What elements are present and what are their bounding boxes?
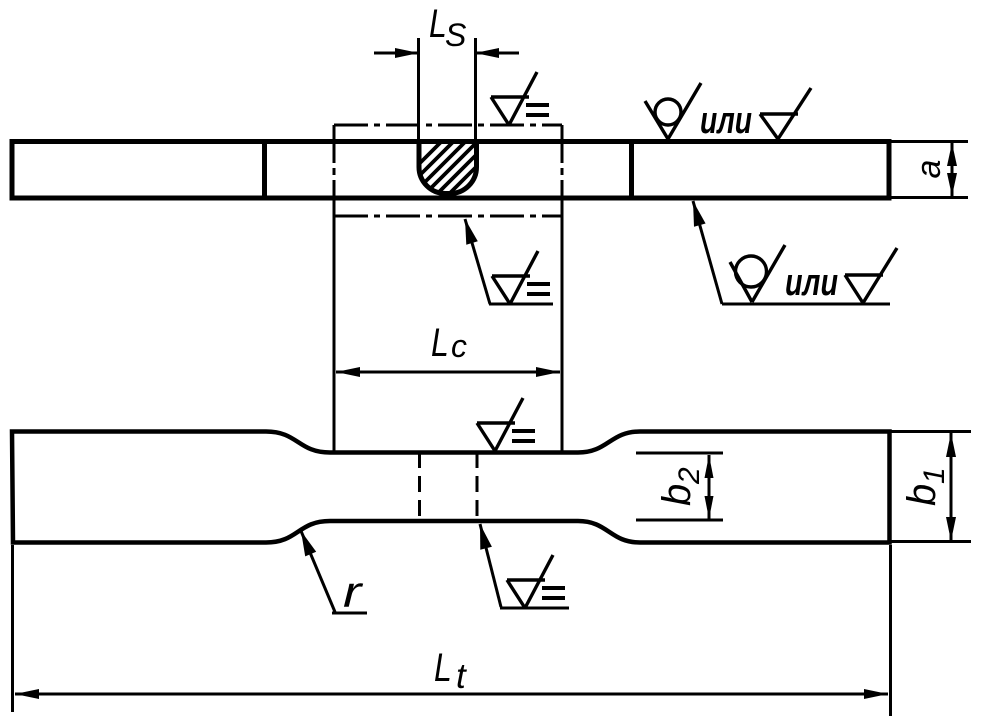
dimension b2 arrow bbox=[705, 455, 714, 519]
leader arrow r to fillet bbox=[301, 531, 367, 613]
dimension L_S extension line left bbox=[417, 38, 420, 142]
label b1 (rotated) bbox=[900, 467, 951, 506]
weld seam (hatched) bbox=[378, 135, 532, 205]
leader arrow to chain line with roughness symbol S4 bbox=[465, 219, 553, 304]
svg-text:b: b bbox=[900, 484, 944, 506]
svg-text:S: S bbox=[445, 17, 466, 53]
dimension L_c line with arrows bbox=[336, 367, 560, 377]
roughness triangle symbol (bottom right) bbox=[845, 248, 897, 303]
thickness a: extension lines bbox=[888, 140, 968, 143]
weld location dashed line right (plan view) bbox=[476, 452, 479, 521]
roughness symbol S5 (triangle with = above specimen) bbox=[477, 398, 535, 451]
chain line box: lower horizontal bbox=[334, 215, 562, 218]
roughness symbol S6 (triangle with =) bbox=[507, 555, 565, 608]
svg-text:a: a bbox=[910, 160, 948, 179]
lower specimen (plan view) outline bbox=[12, 432, 890, 543]
dimension L_t extension line right bbox=[889, 545, 892, 716]
weld location dashed line left (plan view) bbox=[418, 452, 421, 521]
leader arrow to specimen lower edge with roughness symbol S6 bbox=[480, 524, 569, 608]
dimension L_t line with arrows bbox=[15, 689, 888, 699]
svg-text:r: r bbox=[343, 567, 364, 616]
label L_S bbox=[429, 1, 466, 53]
svg-text:L: L bbox=[431, 320, 449, 365]
leader arrow to plate bottom surface bbox=[693, 201, 890, 304]
roughness symbol S1 (triangle with = near L_S) bbox=[491, 72, 549, 125]
roughness group above plate: circle-check symbol bbox=[645, 83, 701, 139]
svg-text:L: L bbox=[434, 645, 452, 690]
svg-text:или: или bbox=[785, 262, 838, 304]
chain line box: right vertical bbox=[561, 125, 564, 451]
dimension a arrow bbox=[947, 143, 957, 196]
svg-text:b: b bbox=[655, 484, 699, 506]
roughness group below plate: circle-check symbol bbox=[730, 245, 785, 302]
upper plate right machining boundary line bbox=[629, 140, 634, 201]
dimension b1 arrow bbox=[946, 433, 956, 541]
chain line box: top horizontal bbox=[334, 124, 562, 127]
svg-text:t: t bbox=[456, 657, 467, 696]
chain line box: left vertical bbox=[333, 125, 336, 452]
svg-text:1: 1 bbox=[918, 467, 951, 484]
dimension b2 extension lines bbox=[636, 452, 723, 455]
label b2 (rotated) bbox=[655, 467, 706, 506]
svg-text:2: 2 bbox=[673, 467, 706, 485]
svg-text:или: или bbox=[700, 100, 752, 142]
upper plate left machining boundary line bbox=[262, 140, 267, 201]
roughness triangle symbol (top right) bbox=[760, 88, 811, 139]
dimension L_S extension line right bbox=[474, 38, 477, 142]
dimension L_S line right with arrow bbox=[475, 48, 519, 58]
label L_t bbox=[434, 645, 467, 696]
roughness symbol S4 (triangle with =) bbox=[492, 251, 550, 304]
label L_c bbox=[431, 320, 467, 365]
upper plate (side view) outline bbox=[12, 142, 889, 199]
svg-text:c: c bbox=[451, 328, 467, 364]
dimension b1 extension lines bbox=[890, 430, 971, 433]
dimension L_S line left with arrow bbox=[374, 48, 419, 58]
dimension L_t extension line left bbox=[11, 545, 14, 712]
